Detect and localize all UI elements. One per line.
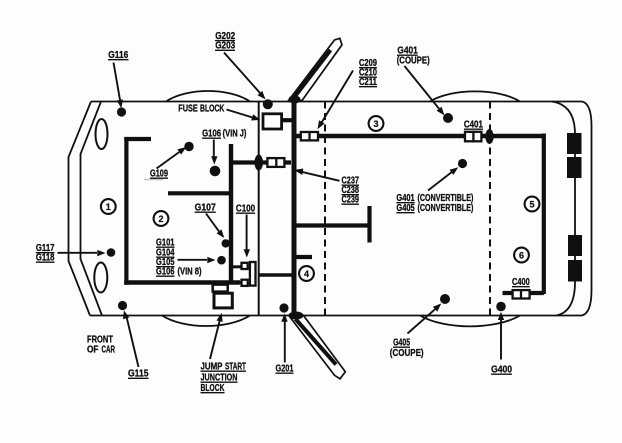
svg-text:G115: G115	[128, 368, 148, 379]
arrow shaft G405 coupe	[408, 309, 436, 333]
arrowhead G401 convertible	[450, 167, 459, 175]
underline C100	[236, 212, 255, 214]
bottom rear arc	[420, 316, 520, 327]
underline G109	[150, 177, 168, 179]
arrow shaft G116	[114, 63, 121, 102]
arrow shaft C209	[322, 71, 353, 123]
underline BLOCK	[201, 392, 225, 394]
svg-text:2: 2	[158, 214, 163, 224]
ground dot G117/G118	[107, 248, 116, 257]
ground dot G106 VIN J	[210, 166, 221, 177]
wire console T bar	[367, 206, 371, 243]
wire connector line C237	[233, 160, 291, 164]
ground dot G401 coupe	[443, 113, 453, 123]
node circle 1	[101, 199, 116, 214]
underline G201	[276, 372, 294, 374]
svg-text:C401: C401	[464, 119, 483, 130]
svg-text:START: START	[225, 360, 246, 372]
arrow shaft G107	[206, 214, 219, 232]
ground dot G201	[279, 303, 288, 312]
arrowhead G107	[217, 229, 225, 238]
ground dot G109	[184, 142, 193, 151]
underline G401 coupe	[397, 54, 418, 56]
underline G104	[156, 256, 175, 258]
arrowhead C209	[318, 120, 325, 129]
front inner bumper line	[81, 102, 103, 316]
underline G401 conv	[396, 202, 414, 204]
ground dot G101/G104/G105/G106	[217, 256, 226, 265]
ground dot G405 coupe	[440, 294, 450, 304]
underline G106 vin j	[202, 137, 221, 139]
arrow shaft G106 VIN J	[213, 140, 215, 158]
svg-text:C100: C100	[236, 203, 255, 214]
underline C239	[342, 203, 360, 205]
ground dot G107	[222, 239, 230, 247]
arrowhead FUSE BLOCK	[251, 114, 260, 120]
car body top edge	[91, 101, 582, 103]
wire fuse block stub	[282, 118, 293, 122]
tail lamp marker 3	[568, 235, 582, 256]
underline G101	[156, 246, 175, 248]
arrow shaft G117/G118	[58, 252, 98, 254]
svg-text:(VIN J): (VIN J)	[223, 128, 247, 139]
underline C401	[464, 128, 483, 130]
connector C209/C210/C211	[301, 131, 318, 142]
top rear window arc	[430, 91, 520, 101]
front upper lamp ellipse	[96, 119, 108, 149]
underline JUMP START	[201, 370, 247, 372]
car body bottom edge	[90, 315, 582, 317]
svg-text:BLOCK: BLOCK	[200, 102, 225, 114]
rear outer contour	[582, 102, 592, 316]
arrow shaft G202/G203	[224, 53, 260, 94]
wire C100 to console	[259, 273, 292, 277]
tail lamp marker 4	[568, 260, 582, 282]
wire firewall thin vertical	[258, 102, 260, 316]
connector C400	[513, 289, 530, 299]
svg-text:G106: G106	[202, 128, 221, 139]
underline C400	[512, 286, 530, 288]
grommet at C401	[485, 129, 493, 144]
arrow shaft G109	[157, 152, 180, 169]
svg-text:OF: OF	[87, 344, 99, 355]
node circle 2	[154, 211, 169, 226]
jump start junction block	[213, 285, 233, 308]
arrowhead G401 coupe	[437, 107, 445, 116]
bottom front arc	[162, 316, 250, 327]
ground dot G400	[496, 302, 506, 312]
grommet at firewall	[254, 155, 263, 171]
svg-text:(CONVERTIBLE): (CONVERTIBLE)	[418, 202, 474, 213]
underline G116	[108, 59, 129, 61]
arrowhead G116	[117, 99, 123, 108]
wire mid vertical bus	[229, 144, 233, 283]
svg-text:1: 1	[106, 202, 111, 212]
fuse block box	[263, 114, 282, 129]
lower B-pillar trim bar	[289, 312, 346, 379]
underline G117	[36, 252, 55, 254]
underline G106 v8	[156, 275, 175, 277]
wire interior bottom edge	[124, 280, 240, 285]
arrow shaft G105	[178, 259, 208, 261]
svg-text:BLOCK: BLOCK	[201, 382, 225, 394]
arrow shaft G401 coupe	[405, 66, 440, 109]
arrowhead C237	[294, 169, 303, 176]
svg-text:5: 5	[529, 199, 534, 209]
connector C100 assembly	[242, 262, 256, 286]
arrowhead JUMP START	[217, 313, 223, 322]
svg-text:JUMP: JUMP	[201, 361, 223, 372]
underline G107	[195, 211, 216, 213]
front outer contour	[69, 102, 92, 316]
wire rear bottom edge	[503, 291, 544, 295]
arrowhead G405 coupe	[433, 303, 441, 311]
underline C210	[359, 76, 377, 78]
wire center console vertical	[292, 99, 297, 316]
arrowhead G115	[123, 310, 129, 319]
underline C209	[359, 67, 377, 69]
underline G405 coupe	[393, 346, 410, 348]
rear inner contour	[552, 102, 575, 316]
svg-text:3: 3	[373, 119, 378, 129]
underline C237	[342, 184, 360, 186]
front lower lamp ellipse	[94, 263, 107, 293]
underline C211	[359, 86, 377, 88]
arrow shaft G400	[500, 320, 502, 360]
wire interior left edge	[124, 137, 128, 285]
arrow shaft G401 convertible	[428, 172, 452, 190]
tail lamp marker 1	[567, 133, 582, 154]
svg-text:G400: G400	[491, 364, 512, 375]
svg-text:G405: G405	[396, 202, 414, 213]
underline G105	[156, 266, 175, 268]
arrowhead G106 VIN J	[211, 156, 217, 164]
underline JUNCTION	[201, 381, 238, 383]
wire main bus to rear	[295, 134, 544, 139]
arrowhead G105	[207, 257, 215, 263]
arrowhead G202/G203	[258, 91, 266, 100]
wire console cross bar	[295, 223, 368, 227]
underline G400	[491, 373, 512, 375]
svg-text:(VIN 8): (VIN 8)	[178, 266, 202, 277]
connector C237/C238/C239	[267, 157, 284, 168]
wire rear right edge	[542, 134, 546, 295]
node circle 3	[369, 116, 384, 131]
underline G202	[215, 40, 235, 42]
ground dot G116	[117, 107, 126, 116]
ground dot G401/G405 convertible	[458, 159, 467, 168]
upper B-pillar trim bar	[289, 38, 343, 103]
wire C100 stub lower	[233, 281, 242, 284]
wire stub near node 4	[295, 255, 312, 259]
arrowhead C100	[244, 249, 250, 257]
svg-text:6: 6	[519, 250, 524, 260]
underline G203	[215, 49, 235, 51]
svg-text:G116: G116	[108, 49, 128, 60]
arrowhead G201	[281, 314, 287, 322]
arrow shaft C237	[302, 172, 340, 181]
arrowhead G117/G118	[97, 250, 105, 256]
svg-text:4: 4	[304, 269, 309, 279]
svg-text:G405: G405	[393, 336, 410, 348]
tail lamp marker 2	[567, 157, 582, 178]
dashed body section line left	[324, 102, 326, 316]
arrowhead G109	[177, 147, 186, 155]
underline G405 conv	[396, 212, 414, 214]
arrow shaft JUMP START	[210, 321, 220, 359]
svg-text:FUSE: FUSE	[178, 102, 198, 113]
underline G115	[128, 377, 149, 379]
svg-text:G203: G203	[215, 40, 235, 51]
svg-text:G109: G109	[150, 167, 168, 178]
dashed body section line right	[489, 102, 491, 316]
ground dot G202/G203	[263, 99, 273, 109]
arrow shaft FUSE BLOCK	[227, 110, 253, 118]
wire C100 stub upper	[233, 265, 242, 268]
svg-text:G107: G107	[195, 202, 216, 213]
arrow shaft G201	[284, 322, 286, 363]
svg-text:C400: C400	[512, 276, 530, 287]
top front windshield arc	[166, 91, 250, 102]
underline C238	[342, 194, 360, 196]
svg-text:CAR: CAR	[102, 344, 116, 355]
node circle 6	[514, 248, 529, 263]
underline G118	[36, 261, 55, 263]
node circle 5	[525, 197, 540, 212]
node circle 4	[299, 266, 314, 281]
svg-text:G201: G201	[276, 362, 294, 373]
arrowhead G400	[498, 312, 504, 320]
arrow shaft C100	[246, 215, 248, 250]
ground dot G115	[118, 301, 127, 310]
svg-text:(COUPE): (COUPE)	[390, 347, 424, 358]
arrow shaft G115	[127, 318, 139, 367]
wire dash divider	[168, 191, 233, 195]
connector C401	[465, 131, 481, 143]
svg-text:(COUPE): (COUPE)	[397, 55, 430, 66]
wire interior top stub	[124, 137, 151, 141]
